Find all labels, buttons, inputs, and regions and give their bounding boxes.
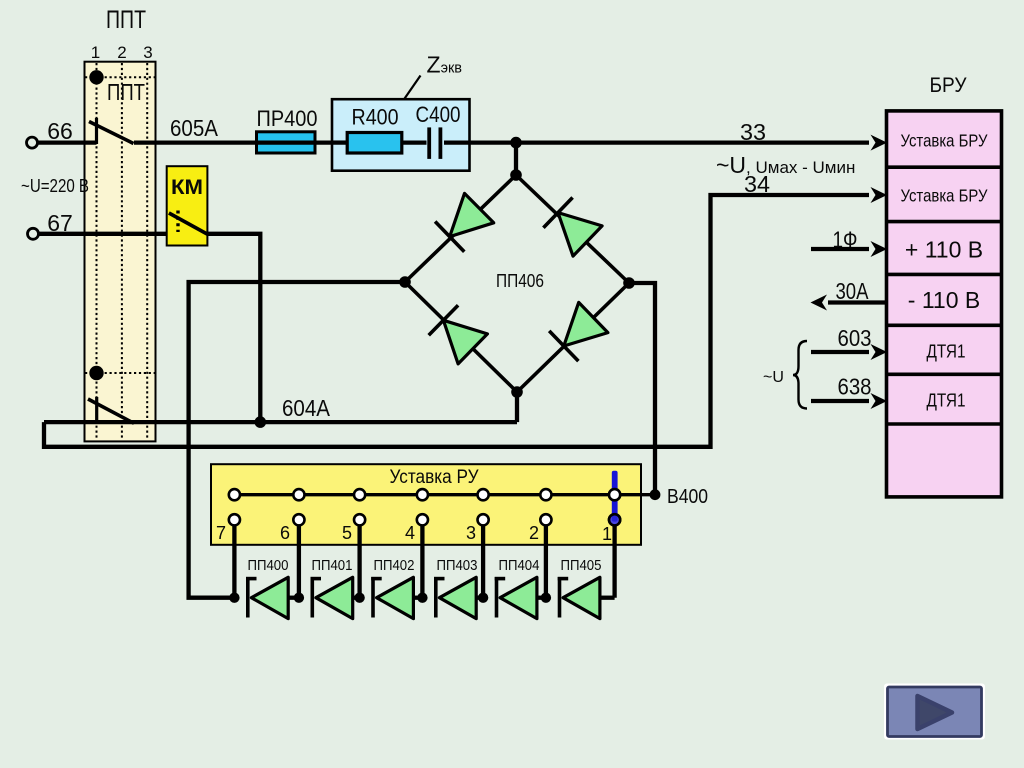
БРУ divider 1 xyxy=(887,165,1002,169)
rectifier bridge ПП406 xyxy=(399,169,635,398)
diode D1 top-left xyxy=(435,193,494,251)
node chain junction 5 xyxy=(354,593,364,603)
wire 638 arrow xyxy=(811,393,887,409)
pot upper contact 1 xyxy=(609,489,620,500)
pot upper contact 6 xyxy=(293,489,304,500)
svg-text:ПП404: ПП404 xyxy=(499,558,540,574)
node В400 xyxy=(650,489,661,500)
diode ПП405 xyxy=(558,558,615,619)
wire tap 2 stem xyxy=(544,525,548,597)
wire arm top-left xyxy=(405,175,516,282)
diode ПП403 xyxy=(434,558,483,619)
diode ПП400 xyxy=(246,558,299,619)
wire bridge bottom node down xyxy=(515,392,519,422)
svg-text:ПР400: ПР400 xyxy=(257,106,318,131)
КМ contact blade xyxy=(169,213,208,235)
svg-text:ПП403: ПП403 xyxy=(437,558,478,574)
node bottom xyxy=(511,386,523,398)
diode D4 bottom-right xyxy=(549,302,608,361)
wire 66 to ППТ contact xyxy=(38,140,97,144)
wire pot top line xyxy=(234,493,655,496)
svg-text:Уставка РУ: Уставка РУ xyxy=(390,467,480,488)
node linkage upper xyxy=(89,70,103,84)
node top xyxy=(510,169,522,181)
wire tap 7 stem xyxy=(232,525,236,597)
svg-text:ПП402: ПП402 xyxy=(374,558,415,574)
ППТ lower contact post xyxy=(95,397,98,423)
svg-text:34: 34 xyxy=(744,171,770,197)
wire 30А arrow (outgoing) xyxy=(811,295,887,311)
svg-text:603: 603 xyxy=(838,325,872,351)
svg-text:+ 110 В: + 110 В xyxy=(905,237,983,263)
svg-text:КМ: КМ xyxy=(171,176,203,199)
svg-text:3: 3 xyxy=(143,43,152,62)
wire tap 4 stem xyxy=(420,525,424,597)
arrowhead 33 xyxy=(871,135,888,151)
wire 34 return path xyxy=(44,195,869,447)
svg-text:ППТ: ППТ xyxy=(106,6,146,34)
wire 67 to КМ xyxy=(39,232,179,236)
potentiometer Уставка РУ (box) xyxy=(211,464,641,545)
wire tap 5 stem xyxy=(357,525,361,597)
svg-text:В400: В400 xyxy=(667,486,708,508)
linkage cross line lower xyxy=(85,372,158,374)
wire resistor to capacitor xyxy=(402,140,426,144)
nav button xyxy=(884,684,985,740)
diode D2 top-right xyxy=(543,198,602,257)
wire tap 6 stem xyxy=(297,525,301,597)
node chain junction 2 xyxy=(541,593,551,603)
wire junction down to bridge top xyxy=(514,143,518,175)
svg-text:2: 2 xyxy=(529,523,539,543)
linkage line pole 1 xyxy=(96,63,98,440)
svg-text:605А: 605А xyxy=(170,115,219,141)
svg-text:3: 3 xyxy=(466,523,476,543)
svg-text:C400: C400 xyxy=(416,102,461,127)
wire bridge right node to B400 xyxy=(629,283,655,495)
КМ actuator link (dotted) xyxy=(176,211,179,233)
block R400/C400 (Zэкв) xyxy=(332,99,470,171)
svg-text:ДТЯ1: ДТЯ1 xyxy=(927,342,966,362)
БРУ divider 4 xyxy=(887,323,1002,327)
pot upper contact 4 xyxy=(417,489,428,500)
slider wiper (blue) at position 1 xyxy=(612,471,618,522)
svg-text:1: 1 xyxy=(602,524,612,544)
node chain junction 3 xyxy=(478,593,488,603)
svg-text:66: 66 xyxy=(47,118,73,144)
wire into resistor xyxy=(332,140,348,144)
ППТ lower blade xyxy=(88,399,134,423)
arrowhead 34 xyxy=(871,187,888,203)
terminal 67 xyxy=(28,228,39,239)
block БРУ (box) xyxy=(887,111,1002,497)
linkage line pole 3 xyxy=(146,63,148,440)
БРУ divider 6 xyxy=(887,422,1002,426)
node chain junction 7 xyxy=(229,593,239,603)
wire arm top-right xyxy=(516,175,629,283)
svg-text:33: 33 xyxy=(740,119,766,145)
pot upper contact 3 xyxy=(478,489,489,500)
diode ПП401 xyxy=(311,558,360,619)
node chain junction 4 xyxy=(417,593,427,603)
brace for 603/638 xyxy=(793,341,807,409)
pot tap contact 6 xyxy=(293,514,304,525)
svg-text:1: 1 xyxy=(91,43,100,62)
wire 1Ф arrow xyxy=(811,241,887,257)
svg-text:5: 5 xyxy=(342,523,352,543)
svg-text:Уставка БРУ: Уставка БРУ xyxy=(901,186,989,206)
pot upper contact 7 xyxy=(229,489,240,500)
fuse ПР400 xyxy=(256,132,315,153)
pot tap contact 4 xyxy=(417,514,428,525)
svg-text:30А: 30А xyxy=(836,278,870,304)
node right xyxy=(623,277,635,289)
capacitor C400 xyxy=(429,127,440,158)
БРУ divider 3 xyxy=(887,273,1002,277)
node linkage lower xyxy=(89,366,103,380)
wire bridge left node to diode chain xyxy=(189,282,405,598)
diode ПП402 xyxy=(371,558,422,619)
junction КМ/604А xyxy=(254,416,266,428)
contactor КМ xyxy=(167,166,208,245)
pot upper contact 5 xyxy=(354,489,365,500)
svg-text:R400: R400 xyxy=(352,105,399,130)
terminal 66 xyxy=(27,137,38,148)
pot tap contact 5 xyxy=(354,514,365,525)
wire 604А xyxy=(44,420,517,424)
svg-text:Уставка БРУ: Уставка БРУ xyxy=(901,131,989,151)
wire arm bottom-left xyxy=(405,282,517,392)
linkage cross line upper xyxy=(85,76,158,78)
ППТ upper contact post xyxy=(95,118,98,144)
node left xyxy=(399,276,411,288)
wire tap 3 stem xyxy=(481,525,485,597)
pot tap contact 1 ring (over wiper) xyxy=(609,514,620,525)
svg-text:~U: ~U xyxy=(763,369,784,386)
linkage line pole 2 xyxy=(121,63,123,440)
svg-text:7: 7 xyxy=(216,523,226,543)
pot tap contact 7 xyxy=(229,514,240,525)
svg-text:ПП405: ПП405 xyxy=(561,558,602,574)
node junction on 33 wire xyxy=(510,137,522,149)
pot tap contact 3 xyxy=(478,514,489,525)
pot tap contact 2 xyxy=(540,514,551,525)
svg-text:4: 4 xyxy=(405,523,415,543)
svg-text:ПП406: ПП406 xyxy=(496,271,544,291)
svg-text:ППТ: ППТ xyxy=(107,79,145,105)
ППТ upper blade xyxy=(89,122,134,144)
wire arm bottom-right xyxy=(517,283,629,392)
svg-text:ПП401: ПП401 xyxy=(312,558,353,574)
svg-text:ПП400: ПП400 xyxy=(248,558,289,574)
wire 603 arrow xyxy=(811,344,887,360)
svg-text:2: 2 xyxy=(117,43,126,62)
wire КМ output xyxy=(208,234,260,422)
node chain junction 6 xyxy=(294,593,304,603)
wire 33 to БРУ xyxy=(444,140,869,144)
БРУ divider 5 xyxy=(887,372,1002,376)
svg-text:638: 638 xyxy=(838,374,872,400)
nav button play triangle xyxy=(918,696,953,729)
svg-text:6: 6 xyxy=(280,523,290,543)
svg-text:~U=220 В: ~U=220 В xyxy=(21,176,89,196)
wire tap 1 stem xyxy=(612,525,616,597)
pot upper contact 1 (over wiper) xyxy=(609,489,620,500)
pot upper contact 2 xyxy=(540,489,551,500)
wire 605А xyxy=(134,140,332,144)
diode D3 bottom-left xyxy=(429,305,488,364)
svg-text:- 110 В: - 110 В xyxy=(908,287,980,313)
resistor R400 xyxy=(347,133,402,154)
svg-text:ДТЯ1: ДТЯ1 xyxy=(927,391,966,411)
БРУ divider 2 xyxy=(887,220,1002,224)
pot tap contact 1 xyxy=(609,514,620,525)
svg-text:604А: 604А xyxy=(282,395,331,421)
svg-text:БРУ: БРУ xyxy=(930,74,968,97)
switch ППТ (box) xyxy=(85,62,159,442)
diode ПП404 xyxy=(495,558,546,619)
